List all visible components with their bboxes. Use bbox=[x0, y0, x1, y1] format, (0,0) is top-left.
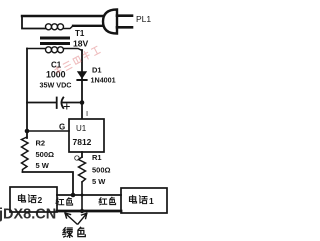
resistor R2 bbox=[22, 137, 29, 172]
wire U1 output pin bbox=[81, 152, 83, 157]
label 绿色 bbox=[63, 227, 85, 237]
wire red line bbox=[57, 194, 121, 196]
node junction dot DC+ bbox=[80, 100, 85, 105]
wire R2 to red line bbox=[23, 172, 74, 195]
wire left rail bbox=[26, 49, 28, 139]
wire secondary right drop to D1 bbox=[81, 50, 83, 72]
svg-text:1N4001: 1N4001 bbox=[91, 76, 116, 85]
svg-text:18V: 18V bbox=[73, 39, 89, 49]
svg-text:1: 1 bbox=[149, 196, 154, 206]
svg-text:O: O bbox=[74, 154, 80, 163]
svg-text:T1: T1 bbox=[75, 29, 85, 38]
transformer core bbox=[40, 37, 70, 40]
wire AC upper bbox=[22, 15, 103, 17]
svg-text:I: I bbox=[86, 109, 88, 118]
wire ground pin G bbox=[27, 130, 69, 132]
label C1 plus sign bbox=[64, 104, 69, 109]
svg-text:1000: 1000 bbox=[46, 70, 66, 80]
wire AC left drop bbox=[22, 16, 45, 29]
wire U1 input pin bbox=[81, 103, 83, 120]
op U1 7812 regulator box bbox=[69, 119, 104, 152]
svg-text:PL1: PL1 bbox=[136, 14, 151, 24]
svg-text:500Ω: 500Ω bbox=[36, 150, 55, 159]
svg-text:D1: D1 bbox=[92, 66, 102, 75]
svg-text:U1: U1 bbox=[76, 124, 87, 133]
svg-text:5 W: 5 W bbox=[36, 161, 50, 170]
capacitor C1 wire right bbox=[63, 102, 82, 104]
node G junction dot bbox=[25, 129, 30, 134]
node red wire junction dot bbox=[71, 193, 76, 198]
wire green line bbox=[57, 210, 121, 213]
svg-text:R2: R2 bbox=[36, 139, 46, 148]
telephone 1 box bbox=[121, 188, 167, 213]
arrow green right bbox=[78, 213, 87, 224]
watermark pink bbox=[54, 45, 100, 75]
label 电话1 bbox=[129, 195, 154, 206]
wire D1 to node bbox=[81, 79, 83, 103]
label 电话2 bbox=[18, 194, 42, 205]
svg-text:500Ω: 500Ω bbox=[92, 166, 111, 175]
capacitor C1 wire left bbox=[27, 102, 56, 104]
svg-text:jDX8.CN: jDX8.CN bbox=[0, 207, 56, 223]
svg-text:5 W: 5 W bbox=[92, 177, 106, 186]
svg-text:R1: R1 bbox=[92, 153, 102, 162]
label 红色 left bbox=[56, 198, 73, 206]
diode D1 bbox=[77, 72, 86, 81]
svg-text:2: 2 bbox=[38, 195, 43, 205]
arrow green left bbox=[65, 213, 77, 224]
capacitor C1 bbox=[57, 98, 64, 109]
transformer T1 secondary winding bbox=[27, 47, 82, 53]
node green wire junction dot bbox=[80, 209, 84, 213]
node R1 red wire crossing bbox=[81, 194, 84, 197]
plug PL1 bbox=[103, 10, 132, 34]
svg-text:G: G bbox=[59, 123, 65, 132]
resistor R1 bbox=[79, 157, 86, 182]
transformer T1 primary winding bbox=[46, 24, 74, 30]
telephone 2 box bbox=[10, 187, 57, 212]
wire R1 to green line bbox=[81, 182, 83, 211]
svg-text:7812: 7812 bbox=[73, 137, 92, 147]
svg-text:35W VDC: 35W VDC bbox=[40, 81, 72, 90]
wire AC lower bbox=[73, 25, 103, 27]
label 红色 right bbox=[99, 197, 116, 205]
